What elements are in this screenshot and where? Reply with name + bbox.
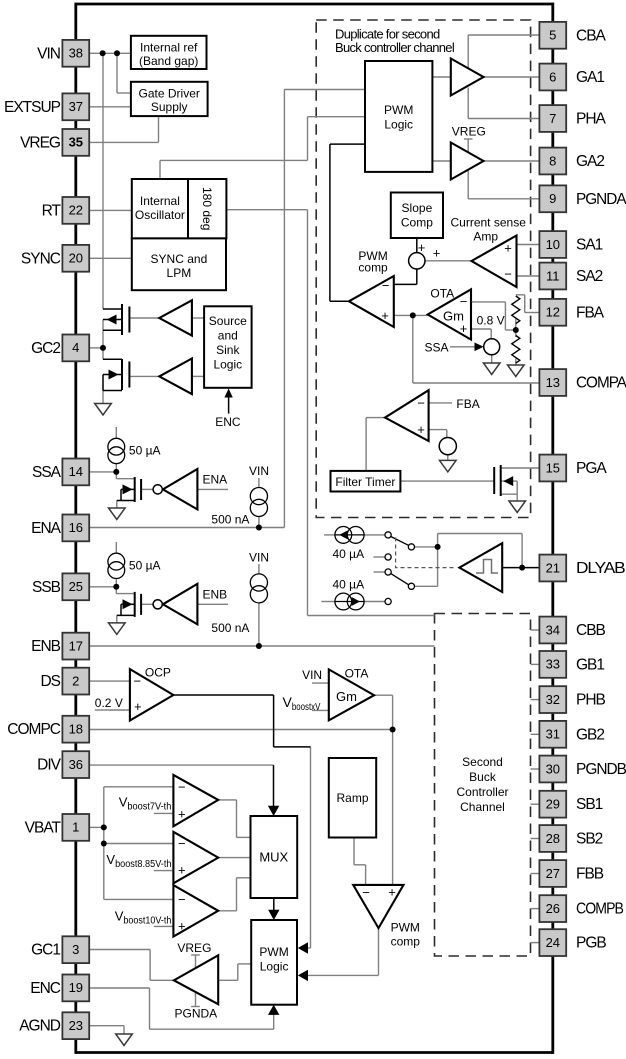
svg-text:−: − bbox=[178, 836, 186, 851]
svg-text:(Band gap): (Band gap) bbox=[139, 54, 198, 68]
svg-text:SA2: SA2 bbox=[576, 268, 603, 285]
svg-text:29: 29 bbox=[546, 797, 560, 812]
svg-text:Current sense: Current sense bbox=[451, 216, 527, 230]
svg-text:3: 3 bbox=[72, 942, 79, 957]
svg-text:DLYAB: DLYAB bbox=[576, 560, 625, 577]
svg-text:Ramp: Ramp bbox=[336, 791, 368, 805]
svg-text:34: 34 bbox=[546, 622, 560, 637]
svg-text:−: − bbox=[134, 674, 142, 689]
svg-text:50 µA: 50 µA bbox=[129, 444, 161, 458]
svg-text:24: 24 bbox=[546, 935, 560, 950]
svg-text:500 nA: 500 nA bbox=[211, 621, 249, 635]
svg-text:+: + bbox=[460, 321, 468, 336]
svg-text:VIN: VIN bbox=[37, 45, 60, 62]
svg-text:Vboost7V-th: Vboost7V-th bbox=[119, 795, 172, 813]
svg-text:PGB: PGB bbox=[576, 935, 606, 952]
svg-text:PGA: PGA bbox=[576, 460, 607, 477]
svg-text:+: + bbox=[178, 919, 186, 934]
svg-text:SSA: SSA bbox=[32, 464, 62, 481]
svg-text:26: 26 bbox=[546, 901, 560, 916]
svg-text:CBA: CBA bbox=[576, 27, 607, 44]
svg-text:20: 20 bbox=[69, 251, 83, 266]
svg-text:32: 32 bbox=[546, 692, 560, 707]
svg-text:GB2: GB2 bbox=[576, 726, 604, 743]
svg-text:ENB: ENB bbox=[203, 587, 228, 601]
svg-text:−: − bbox=[460, 294, 468, 309]
svg-text:OCP: OCP bbox=[145, 665, 171, 679]
svg-text:0.8 V: 0.8 V bbox=[477, 314, 505, 328]
svg-text:VREG: VREG bbox=[20, 134, 60, 151]
svg-text:+: + bbox=[418, 240, 426, 255]
svg-text:Oscillator: Oscillator bbox=[135, 208, 185, 222]
svg-text:Gm: Gm bbox=[336, 689, 357, 704]
svg-text:Controller: Controller bbox=[456, 785, 508, 799]
svg-text:Source: Source bbox=[209, 314, 247, 328]
svg-text:Vboost10V-th: Vboost10V-th bbox=[115, 909, 172, 927]
svg-text:ENC: ENC bbox=[215, 415, 241, 429]
svg-text:−: − bbox=[362, 885, 370, 900]
svg-text:EXTSUP: EXTSUP bbox=[4, 99, 61, 116]
svg-text:SYNC: SYNC bbox=[21, 250, 61, 267]
svg-text:ENB: ENB bbox=[31, 638, 61, 655]
svg-text:−: − bbox=[382, 278, 390, 293]
svg-text:36: 36 bbox=[69, 757, 83, 772]
svg-text:−: − bbox=[504, 267, 512, 282]
svg-text:SSA: SSA bbox=[424, 341, 448, 355]
svg-text:10: 10 bbox=[546, 237, 560, 252]
svg-text:COMPB: COMPB bbox=[576, 901, 624, 918]
svg-text:500 nA: 500 nA bbox=[211, 513, 249, 527]
svg-text:GC2: GC2 bbox=[31, 340, 60, 357]
svg-text:COMPA: COMPA bbox=[576, 375, 626, 392]
svg-text:Logic: Logic bbox=[213, 358, 242, 372]
svg-text:Buck: Buck bbox=[469, 770, 497, 784]
svg-text:27: 27 bbox=[546, 866, 560, 881]
svg-text:VIN: VIN bbox=[249, 464, 269, 478]
svg-text:Second: Second bbox=[462, 755, 503, 769]
svg-text:−: − bbox=[417, 396, 425, 411]
svg-text:Buck controller channel: Buck controller channel bbox=[335, 40, 455, 55]
svg-text:−: − bbox=[178, 892, 186, 907]
svg-text:FBB: FBB bbox=[576, 866, 604, 883]
svg-text:Internal: Internal bbox=[140, 194, 180, 208]
svg-text:PWM: PWM bbox=[384, 103, 413, 117]
svg-text:PHA: PHA bbox=[576, 111, 607, 128]
svg-text:Amp: Amp bbox=[473, 230, 498, 244]
svg-text:2: 2 bbox=[72, 673, 79, 688]
svg-text:12: 12 bbox=[546, 305, 560, 320]
svg-text:SB2: SB2 bbox=[576, 831, 603, 848]
svg-text:Slope: Slope bbox=[402, 201, 433, 215]
svg-text:16: 16 bbox=[69, 520, 83, 535]
svg-text:FBA: FBA bbox=[576, 304, 605, 321]
svg-text:+: + bbox=[388, 885, 396, 900]
svg-text:21: 21 bbox=[546, 560, 560, 575]
svg-text:7: 7 bbox=[549, 111, 556, 126]
svg-text:Gate Driver: Gate Driver bbox=[139, 87, 200, 101]
svg-text:LPM: LPM bbox=[167, 266, 192, 280]
svg-text:35: 35 bbox=[69, 135, 83, 150]
svg-text:VboostxV: VboostxV bbox=[283, 694, 321, 713]
svg-text:ENA: ENA bbox=[203, 473, 228, 487]
svg-text:15: 15 bbox=[546, 460, 560, 475]
svg-text:COMPC: COMPC bbox=[7, 721, 61, 738]
svg-text:19: 19 bbox=[69, 980, 83, 995]
svg-text:33: 33 bbox=[546, 657, 560, 672]
svg-text:SYNC and: SYNC and bbox=[151, 252, 208, 266]
svg-text:VBAT: VBAT bbox=[25, 819, 62, 836]
svg-text:Filter Timer: Filter Timer bbox=[335, 475, 395, 489]
svg-text:50 µA: 50 µA bbox=[129, 559, 161, 573]
svg-text:AGND: AGND bbox=[19, 1018, 61, 1035]
svg-text:8: 8 bbox=[549, 153, 556, 168]
svg-text:VIN: VIN bbox=[249, 551, 269, 565]
svg-text:+: + bbox=[433, 246, 441, 261]
svg-text:38: 38 bbox=[69, 46, 83, 61]
svg-text:GA1: GA1 bbox=[576, 69, 604, 86]
svg-text:180 deg: 180 deg bbox=[200, 187, 214, 230]
svg-text:40 µA: 40 µA bbox=[333, 578, 365, 592]
svg-text:DS: DS bbox=[40, 673, 60, 690]
svg-text:ENC: ENC bbox=[30, 980, 61, 997]
svg-text:9: 9 bbox=[549, 191, 556, 206]
svg-text:ENA: ENA bbox=[31, 520, 62, 537]
svg-text:RT: RT bbox=[42, 202, 62, 219]
svg-text:5: 5 bbox=[549, 28, 556, 43]
svg-text:23: 23 bbox=[69, 1018, 83, 1033]
svg-text:11: 11 bbox=[546, 268, 560, 283]
svg-text:40 µA: 40 µA bbox=[333, 547, 365, 561]
svg-text:Logic: Logic bbox=[260, 960, 289, 974]
svg-text:CBB: CBB bbox=[576, 622, 606, 639]
svg-text:37: 37 bbox=[69, 99, 83, 114]
svg-text:DIV: DIV bbox=[37, 757, 62, 774]
svg-text:1: 1 bbox=[72, 820, 79, 835]
svg-text:−: − bbox=[178, 780, 186, 795]
svg-text:17: 17 bbox=[69, 638, 83, 653]
svg-text:VREG: VREG bbox=[452, 125, 486, 139]
svg-text:Internal ref: Internal ref bbox=[140, 41, 198, 55]
svg-text:Supply: Supply bbox=[151, 100, 188, 114]
svg-text:Logic: Logic bbox=[384, 118, 413, 132]
svg-text:SB1: SB1 bbox=[576, 796, 603, 813]
svg-text:and: and bbox=[218, 329, 238, 343]
svg-text:PWM: PWM bbox=[259, 945, 288, 959]
svg-text:+: + bbox=[134, 699, 142, 714]
svg-text:SSB: SSB bbox=[32, 579, 61, 596]
svg-text:Vboost8.85V-th: Vboost8.85V-th bbox=[106, 852, 171, 870]
svg-text:30: 30 bbox=[546, 761, 560, 776]
svg-text:Comp: Comp bbox=[401, 216, 433, 230]
svg-text:SA1: SA1 bbox=[576, 237, 603, 254]
svg-text:28: 28 bbox=[546, 831, 560, 846]
svg-text:18: 18 bbox=[69, 722, 83, 737]
svg-text:OTA: OTA bbox=[345, 667, 369, 681]
svg-text:GB1: GB1 bbox=[576, 656, 604, 673]
svg-text:25: 25 bbox=[69, 579, 83, 594]
svg-text:6: 6 bbox=[549, 69, 556, 84]
svg-text:+: + bbox=[178, 807, 186, 822]
svg-text:+: + bbox=[178, 863, 186, 878]
svg-text:GC1: GC1 bbox=[31, 942, 60, 959]
svg-text:MUX: MUX bbox=[259, 850, 288, 865]
svg-text:VREG: VREG bbox=[177, 941, 211, 955]
svg-text:31: 31 bbox=[546, 727, 560, 742]
svg-text:PGNDB: PGNDB bbox=[576, 761, 626, 778]
svg-text:Channel: Channel bbox=[460, 800, 505, 814]
svg-text:PGNDA: PGNDA bbox=[175, 1007, 218, 1021]
svg-text:13: 13 bbox=[546, 375, 560, 390]
svg-text:+: + bbox=[417, 422, 425, 437]
svg-text:comp: comp bbox=[391, 935, 421, 949]
svg-text:comp: comp bbox=[358, 261, 388, 275]
svg-text:PWM: PWM bbox=[391, 921, 420, 935]
svg-text:+: + bbox=[381, 308, 389, 323]
svg-text:14: 14 bbox=[69, 464, 83, 479]
svg-text:Sink: Sink bbox=[216, 343, 240, 357]
svg-text:FBA: FBA bbox=[456, 397, 479, 411]
svg-text:OTA: OTA bbox=[430, 287, 454, 301]
svg-text:4: 4 bbox=[72, 340, 79, 355]
svg-text:VIN: VIN bbox=[302, 668, 322, 682]
svg-text:+: + bbox=[504, 241, 512, 256]
svg-text:GA2: GA2 bbox=[576, 153, 604, 170]
svg-text:PGNDA: PGNDA bbox=[576, 191, 626, 208]
svg-text:0.2 V: 0.2 V bbox=[95, 696, 123, 710]
svg-text:22: 22 bbox=[69, 203, 83, 218]
svg-text:PHB: PHB bbox=[576, 692, 606, 709]
